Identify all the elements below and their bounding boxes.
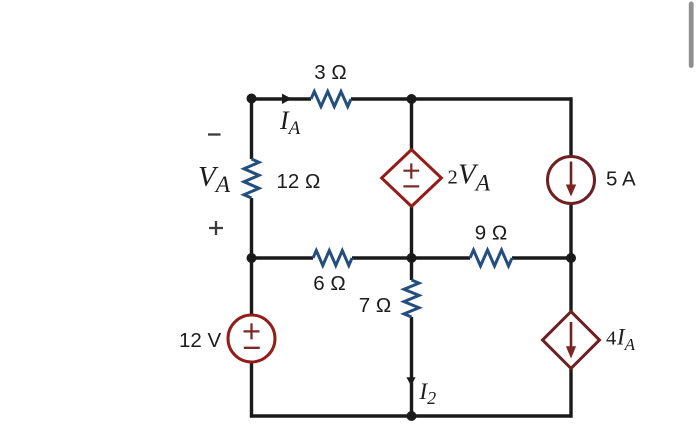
resistor R 6-ohm zigzag [313, 251, 352, 266]
12V source plus mark [244, 323, 260, 339]
wire right rail: top corner to 5A source [569, 97, 572, 157]
wire right rail: right-mid node to 4IA diamond [569, 258, 572, 312]
polarity plus for VA [209, 221, 223, 235]
resistor R 12-ohm zigzag (vertical) [244, 159, 259, 198]
svg-text:12 Ω: 12 Ω [277, 170, 321, 193]
wire left rail lower (12V source bottom to bottom wire) [250, 362, 253, 418]
current arrow IA on top wire [282, 94, 292, 104]
node dot bottom-center [407, 411, 417, 421]
svg-text:4: 4 [606, 328, 616, 350]
scrollbar thumb [689, 2, 694, 69]
node dot mid-right [566, 253, 576, 263]
2VA source minus mark [403, 185, 419, 187]
wire middle horizontal: 9-ohm to right node [512, 256, 571, 259]
wire middle horizontal: left node to 6-ohm [250, 256, 313, 259]
resistor R 7-ohm zigzag (vertical) [404, 280, 419, 317]
wire top from node A to 3-ohm [252, 97, 312, 100]
svg-text:3 Ω: 3 Ω [314, 61, 346, 84]
resistor R 9-ohm zigzag [470, 250, 512, 266]
wire center vertical: 2VA diamond to middle node [410, 207, 413, 259]
4IA source arrow [570, 322, 573, 349]
voltage source 12V circle [228, 315, 275, 362]
wire center vertical: middle node to 7-ohm [410, 258, 413, 280]
wire center vertical: 7-ohm to bottom wire (with I2 arrow) [410, 317, 413, 416]
svg-text:7 Ω: 7 Ω [359, 294, 391, 317]
5A source arrow [570, 162, 573, 188]
node dot top-left [247, 94, 257, 104]
current arrow I2 on center-bottom wire [406, 377, 415, 386]
dependent source 4IA diamond [543, 312, 600, 369]
node dot mid-center [407, 253, 417, 263]
current source 5A circle [548, 157, 595, 204]
wire left rail upper [250, 97, 253, 159]
wire middle horizontal: 6-ohm to center node [352, 256, 470, 259]
svg-text:9 Ω: 9 Ω [475, 222, 507, 245]
svg-text:2: 2 [448, 167, 458, 189]
node dot mid-left [247, 253, 257, 263]
wire top from 3-ohm to top-right corner [351, 97, 573, 100]
dependent source 2VA diamond [382, 150, 442, 207]
wire right rail: 5A source to right-mid node [569, 204, 572, 259]
svg-text:6 Ω: 6 Ω [313, 272, 345, 295]
resistor R 3-ohm zigzag [311, 92, 351, 107]
wire right rail: 4IA diamond to bottom wire [569, 369, 572, 418]
svg-text:12 V: 12 V [179, 329, 221, 352]
node dot top-center [407, 94, 417, 104]
wire left rail mid (12ohm bottom to 12V source top) [250, 198, 253, 316]
polarity minus for VA [208, 133, 221, 135]
svg-text:5 A: 5 A [606, 168, 636, 191]
12V source minus mark [244, 347, 260, 349]
2VA source plus mark [403, 163, 419, 178]
wire center vertical: top node to 2VA diamond [410, 99, 413, 150]
wire bottom [250, 414, 573, 417]
